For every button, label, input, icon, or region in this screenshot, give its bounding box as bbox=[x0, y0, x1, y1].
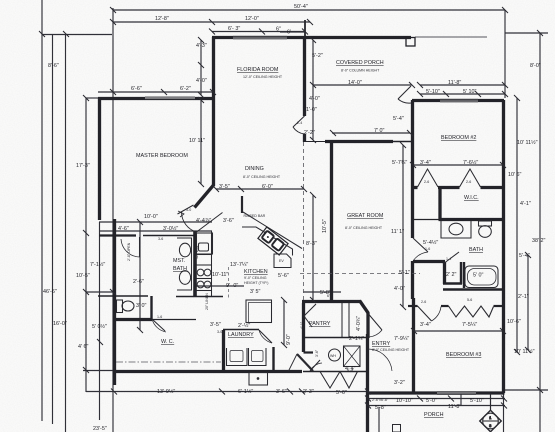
svg-text:6": 6" bbox=[276, 27, 281, 33]
wall toilet nook right bbox=[150, 296, 152, 319]
toilet wc bbox=[117, 300, 123, 313]
wall greatroom bottom bbox=[302, 300, 360, 303]
svg-text:6'-2": 6'-2" bbox=[180, 86, 191, 92]
door entry triangles bbox=[320, 372, 340, 389]
dim vert right 10-11 bbox=[516, 98, 518, 352]
wall master top bbox=[98, 97, 213, 100]
door hall closet diag thick bbox=[297, 354, 313, 371]
wall laundry left bbox=[222, 330, 225, 371]
svg-text:10' 6": 10' 6" bbox=[508, 172, 522, 178]
svg-text:2'-½": 2'-½" bbox=[238, 322, 250, 329]
svg-text:GREAT ROOM: GREAT ROOM bbox=[347, 213, 384, 219]
wall pantry left bbox=[302, 303, 305, 352]
svg-text:2'-6": 2'-6" bbox=[133, 279, 144, 285]
svg-text:11'-8": 11'-8" bbox=[448, 404, 461, 410]
svg-text:2'-3": 2'-3" bbox=[303, 389, 314, 395]
svg-text:1-6: 1-6 bbox=[425, 247, 430, 251]
svg-text:6'-0": 6'-0" bbox=[262, 184, 273, 190]
svg-text:3: 3 bbox=[489, 424, 491, 428]
dim line left 5 bbox=[112, 8, 114, 432]
door florida-porch leaf bbox=[293, 116, 305, 127]
svg-text:10'-10": 10'-10" bbox=[396, 398, 413, 404]
svg-text:6'-1½": 6'-1½" bbox=[238, 388, 253, 395]
shower mst bbox=[197, 233, 213, 254]
door pantry-entry leaf bbox=[369, 314, 383, 330]
door hall-bed3 leaf bbox=[418, 306, 432, 321]
porch bottom dim ext bbox=[378, 407, 380, 432]
svg-text:13'-7¼": 13'-7¼" bbox=[230, 262, 248, 268]
porch right edge line bbox=[504, 10, 506, 98]
svg-text:10'-0": 10'-0" bbox=[144, 214, 158, 220]
dim line 5-8 bbox=[303, 291, 341, 293]
svg-text:EV: EV bbox=[279, 259, 284, 263]
svg-text:3'-5": 3'-5" bbox=[210, 322, 221, 328]
svg-text:3' 5": 3' 5" bbox=[250, 289, 261, 295]
wall hall jog bbox=[304, 351, 314, 353]
dim tick 4-6 left bbox=[83, 370, 114, 372]
kitchen wall stub bbox=[241, 196, 243, 213]
wall wic left bbox=[438, 187, 441, 220]
AC unit bbox=[344, 346, 361, 367]
svg-text:MST.: MST. bbox=[173, 258, 185, 264]
wall pantry diag right bbox=[360, 301, 369, 314]
svg-text:2'-8" OPEN: 2'-8" OPEN bbox=[127, 242, 131, 261]
svg-text:COVERED PORCH: COVERED PORCH bbox=[336, 60, 384, 66]
svg-text:5'-1": 5'-1" bbox=[399, 270, 410, 276]
bath2 toilet bbox=[479, 221, 492, 226]
dim ext master left bbox=[99, 222, 101, 420]
svg-text:HEIGHT (TYP.): HEIGHT (TYP.) bbox=[244, 281, 268, 285]
svg-text:5'-6": 5'-6" bbox=[336, 390, 347, 396]
svg-text:5' 10": 5' 10" bbox=[463, 89, 477, 95]
wall pantry right bbox=[366, 313, 369, 338]
svg-text:5'-6": 5'-6" bbox=[278, 273, 289, 279]
door porch-hall leaf bbox=[398, 86, 411, 99]
dim vert right 5-4 bbox=[527, 255, 529, 350]
dim line left 2 bbox=[52, 34, 54, 424]
dim bottom main bbox=[86, 391, 368, 393]
svg-text:23'-5": 23'-5" bbox=[93, 426, 107, 432]
wall toilet nook bbox=[98, 295, 148, 297]
svg-text:3'-5": 3'-5" bbox=[219, 184, 230, 190]
door master double X left bbox=[178, 205, 194, 214]
svg-text:BEDROOM #2: BEDROOM #2 bbox=[441, 135, 476, 141]
door bed2 left triangle bbox=[418, 169, 439, 187]
svg-text:BATH: BATH bbox=[469, 247, 483, 253]
svg-text:2-4: 2-4 bbox=[297, 121, 302, 125]
wall wc top bbox=[113, 318, 152, 321]
window master top bbox=[145, 97, 195, 100]
dashdot attic line wc bbox=[116, 361, 221, 363]
wall wc top thin bbox=[152, 319, 196, 321]
svg-text:3-0: 3-0 bbox=[217, 330, 222, 334]
dim line 5-10/5-10 bbox=[420, 93, 505, 95]
dashed dim kitchen bbox=[228, 267, 230, 298]
svg-text:BEDROOM #3: BEDROOM #3 bbox=[446, 352, 481, 358]
pantry shelf lines bbox=[341, 302, 343, 337]
svg-text:4'-1": 4'-1" bbox=[300, 321, 304, 329]
svg-text:14'-0": 14'-0" bbox=[348, 80, 362, 86]
svg-text:6'- 3": 6'- 3" bbox=[228, 26, 240, 32]
door pantry leaf bbox=[304, 304, 316, 316]
dim line kitchen 9-0 bbox=[196, 285, 244, 287]
svg-text:2-6: 2-6 bbox=[421, 300, 426, 304]
dim line 11-8 top bbox=[420, 84, 505, 86]
dim line left 4 bbox=[85, 98, 87, 392]
svg-text:3-0: 3-0 bbox=[186, 208, 191, 212]
door entry arc bbox=[368, 349, 392, 371]
dim tick top right bbox=[505, 32, 548, 34]
svg-text:4'-0": 4'-0" bbox=[196, 78, 207, 84]
svg-text:17'-3": 17'-3" bbox=[76, 163, 90, 169]
svg-text:2'-1¾": 2'-1¾" bbox=[349, 336, 364, 342]
wall bed2 bottom right seg bbox=[481, 186, 505, 189]
wall utility bottom bbox=[303, 371, 368, 373]
door mst bath swing bbox=[139, 237, 141, 257]
svg-text:2'-2": 2'-2" bbox=[304, 130, 315, 136]
svg-text:3'-0½": 3'-0½" bbox=[163, 225, 178, 232]
svg-text:5' 0": 5' 0" bbox=[473, 273, 484, 279]
svg-text:1'-0": 1'-0" bbox=[306, 107, 317, 113]
svg-text:KITCHEN: KITCHEN bbox=[244, 269, 268, 275]
dim vert master 10-11 bbox=[200, 100, 202, 184]
wall florida right / porch left bbox=[303, 37, 306, 116]
svg-text:LAUNDRY: LAUNDRY bbox=[228, 332, 254, 338]
svg-text:4'-0¾": 4'-0¾" bbox=[356, 316, 362, 331]
porch wall stub bbox=[304, 20, 306, 37]
svg-text:8'-0": 8'-0" bbox=[530, 63, 541, 69]
svg-text:7'-1½": 7'-1½" bbox=[90, 261, 105, 268]
wall porch left lower bbox=[303, 134, 306, 142]
svg-text:46'-6": 46'-6" bbox=[43, 289, 57, 295]
dryer bbox=[249, 348, 267, 366]
bifold closet bed3 bbox=[449, 306, 494, 317]
mst sink 2 bbox=[179, 271, 190, 285]
svg-text:6': 6' bbox=[287, 30, 291, 36]
svg-text:7'-9¼": 7'-9¼" bbox=[394, 336, 409, 342]
svg-text:5'-10": 5'-10" bbox=[470, 398, 484, 404]
dim line porch bottom tick bbox=[505, 389, 548, 391]
svg-text:RAISED BAR: RAISED BAR bbox=[244, 214, 266, 218]
dim line top 12-8/12-0 bbox=[113, 21, 310, 23]
wall bath bottom bbox=[443, 288, 503, 290]
tub bbox=[465, 266, 498, 288]
wall bed3 bottom bbox=[368, 391, 505, 394]
svg-text:7'-5¼": 7'-5¼" bbox=[462, 322, 477, 328]
wall florida left / master right bbox=[212, 37, 215, 186]
svg-text:7' 0": 7' 0" bbox=[374, 128, 385, 134]
svg-text:4'-0": 4'-0" bbox=[394, 286, 405, 292]
wall linen right bbox=[460, 262, 462, 284]
window bed2 top bbox=[440, 99, 478, 102]
svg-text:5' 0½": 5' 0½" bbox=[92, 323, 107, 330]
svg-text:2'-1": 2'-1" bbox=[518, 294, 529, 300]
svg-text:W. C.: W. C. bbox=[161, 339, 174, 345]
dim vert bath 7-1 bbox=[139, 222, 141, 330]
dim line 4-6/3-0 bbox=[100, 230, 212, 232]
wall greatroom left bbox=[330, 141, 333, 301]
svg-text:8'-0" CEILING HEIGHT: 8'-0" CEILING HEIGHT bbox=[243, 175, 281, 179]
svg-text:8'-0" CEILING HEIGHT: 8'-0" CEILING HEIGHT bbox=[372, 348, 410, 352]
mst sink 1 bbox=[179, 243, 190, 257]
range burners bbox=[197, 269, 204, 276]
WH circle bbox=[329, 349, 341, 361]
svg-text:1: 1 bbox=[489, 416, 491, 420]
dim line greatroom 7-0 bbox=[332, 132, 410, 134]
wall covered porch top bbox=[305, 36, 412, 39]
wall bed2 top bbox=[412, 99, 504, 102]
svg-text:5'-10": 5'-10" bbox=[426, 89, 440, 95]
wall bed3 top mid seg bbox=[441, 305, 449, 307]
wall master diag bbox=[195, 185, 215, 208]
wall greatroom top thin (opening) bbox=[305, 141, 329, 143]
kitchen corner sink dark bbox=[258, 227, 288, 255]
svg-text:8'-0" COLUMN HEIGHT: 8'-0" COLUMN HEIGHT bbox=[341, 69, 380, 73]
dim line wc 2-6 bbox=[86, 291, 113, 293]
door bed2 right triangle bbox=[460, 169, 481, 187]
svg-text:MASTER BEDROOM: MASTER BEDROOM bbox=[136, 153, 188, 159]
svg-text:PANTRY: PANTRY bbox=[309, 321, 331, 327]
dim line top 50-4 bbox=[113, 9, 505, 11]
door laundry leaf+arc bbox=[259, 330, 272, 343]
svg-text:BATH: BATH bbox=[173, 266, 187, 272]
svg-text:13'-9½": 13'-9½" bbox=[157, 388, 175, 395]
wall hall/bed2 vertical bbox=[411, 100, 414, 238]
porch small square bottom bbox=[393, 425, 401, 432]
dim line left outer bbox=[41, 0, 43, 421]
window bed3 bottom bbox=[437, 392, 476, 395]
wall bed3 left bbox=[412, 298, 415, 393]
door linen diag bbox=[443, 252, 459, 264]
svg-text:4' 4": 4' 4" bbox=[345, 366, 356, 372]
svg-text:PORCH: PORCH bbox=[424, 412, 444, 418]
wall linen bottom bbox=[443, 282, 462, 284]
svg-text:5'-4": 5'-4" bbox=[519, 253, 530, 259]
svg-text:W.I.C.: W.I.C. bbox=[464, 195, 479, 201]
door utility bottom leaf bbox=[310, 360, 320, 371]
svg-text:12'-0": 12'-0" bbox=[245, 16, 259, 22]
svg-text:2' 2": 2' 2" bbox=[446, 272, 457, 278]
wall bed3 top right seg bbox=[494, 305, 505, 307]
wall kitchen left bbox=[193, 231, 197, 297]
svg-text:FLORIDA ROOM: FLORIDA ROOM bbox=[237, 67, 279, 73]
dim line dining 3-5/6-0 bbox=[216, 188, 304, 190]
svg-text:16'-0": 16'-0" bbox=[53, 321, 67, 327]
svg-text:1-4: 1-4 bbox=[446, 257, 451, 261]
dim vert right 8-0 bbox=[539, 33, 541, 432]
svg-text:10' 11½": 10' 11½" bbox=[514, 348, 535, 355]
svg-text:4'-6": 4'-6" bbox=[118, 226, 129, 232]
dim line porch 14-0 bbox=[313, 84, 412, 86]
svg-text:WH: WH bbox=[330, 354, 336, 358]
svg-text:3' 0": 3' 0" bbox=[136, 303, 147, 309]
kitchen counter edge bbox=[211, 231, 213, 296]
svg-text:3-6: 3-6 bbox=[158, 237, 163, 241]
porch right edge lower bbox=[503, 393, 505, 432]
diamond marker porch bbox=[480, 393, 501, 432]
wall wc bottom bbox=[113, 370, 302, 373]
wall entry/porch left bbox=[366, 334, 369, 432]
svg-text:5'-4": 5'-4" bbox=[393, 116, 404, 122]
dim vert florida 4-3/4-0 bbox=[200, 40, 202, 95]
window florida top bbox=[233, 36, 287, 39]
svg-text:5-6: 5-6 bbox=[467, 298, 472, 302]
svg-text:10'-6": 10'-6" bbox=[507, 319, 521, 325]
dim vert 11-1 bbox=[402, 145, 404, 307]
nook table bbox=[246, 300, 272, 323]
svg-text:38' 2": 38' 2" bbox=[532, 238, 546, 244]
svg-text:3'-6": 3'-6" bbox=[315, 349, 319, 357]
svg-text:5'-8": 5'-8" bbox=[320, 290, 331, 296]
svg-text:20" LINEN: 20" LINEN bbox=[205, 293, 209, 310]
oven EV box bbox=[274, 254, 291, 268]
wall tub left bbox=[463, 262, 465, 288]
dim line bed3 top bbox=[414, 330, 503, 332]
svg-text:2-6: 2-6 bbox=[466, 180, 471, 184]
washer bbox=[227, 348, 248, 366]
wall bath top right seg bbox=[143, 235, 196, 237]
svg-text:4' 6": 4' 6" bbox=[78, 344, 89, 350]
svg-text:5'-7¾": 5'-7¾" bbox=[392, 160, 407, 166]
dim vert hall 9-0 bbox=[283, 300, 285, 345]
wall bed3 top left seg bbox=[408, 305, 418, 307]
wall bed2 bottom left seg bbox=[412, 186, 418, 189]
wall utility right bbox=[367, 334, 369, 372]
svg-text:3'-2": 3'-2" bbox=[394, 380, 405, 386]
wall hall vertical lower bbox=[411, 261, 414, 299]
door wc swing bbox=[152, 319, 165, 331]
wall greatroom top bbox=[325, 140, 393, 143]
wall linen left bbox=[443, 262, 446, 284]
dim sep bottom bbox=[460, 393, 462, 406]
svg-text:3'-6": 3'-6" bbox=[223, 218, 234, 224]
svg-text:4'-3": 4'-3" bbox=[196, 43, 207, 49]
porch top thin line bbox=[415, 36, 487, 38]
svg-text:10'-11": 10'-11" bbox=[212, 272, 228, 278]
raised bar outer edge bbox=[243, 212, 302, 249]
dim vert gr 10-5 bbox=[312, 195, 314, 300]
wall wc left bbox=[113, 219, 116, 385]
porch column square bbox=[406, 38, 415, 47]
mst vanity counter bbox=[177, 238, 192, 290]
svg-text:42" VAN.: 42" VAN. bbox=[195, 245, 199, 259]
svg-text:4'-0": 4'-0" bbox=[309, 96, 320, 102]
svg-text:5'-0": 5'-0" bbox=[426, 398, 437, 404]
svg-text:10'-5": 10'-5" bbox=[322, 219, 328, 233]
wall bath linen top bbox=[413, 260, 445, 263]
svg-text:9'-0" CEILING: 9'-0" CEILING bbox=[244, 276, 267, 280]
svg-text:12'-0" CEILING HEIGHT: 12'-0" CEILING HEIGHT bbox=[243, 75, 283, 79]
wall kitchen bottom bbox=[176, 296, 223, 298]
svg-text:9'- 0": 9'- 0" bbox=[226, 283, 238, 289]
wall bath hall top bbox=[413, 219, 439, 221]
wall bed2 bottom mid seg bbox=[438, 186, 460, 189]
svg-text:5'-4½": 5'-4½" bbox=[423, 239, 438, 246]
dashed ceiling break greatroom bbox=[300, 273, 420, 275]
svg-text:8'-0" CEILING HEIGHT: 8'-0" CEILING HEIGHT bbox=[345, 226, 383, 230]
freezer below bbox=[249, 373, 268, 386]
wall wic bottom bbox=[439, 218, 505, 221]
wall florida top bbox=[212, 36, 306, 39]
dim line bed2 3-4/7-6 bbox=[413, 164, 503, 166]
svg-text:8'-3": 8'-3" bbox=[306, 241, 317, 247]
svg-text:7'-6½": 7'-6½" bbox=[463, 159, 478, 166]
svg-text:10' 11": 10' 11" bbox=[189, 138, 205, 144]
svg-text:11'-8": 11'-8" bbox=[448, 80, 461, 86]
svg-text:2-6: 2-6 bbox=[424, 180, 429, 184]
svg-text:11' 1": 11' 1" bbox=[391, 229, 404, 235]
svg-text:3'-4": 3'-4" bbox=[420, 322, 431, 328]
svg-text:DINING: DINING bbox=[245, 166, 264, 172]
svg-text:8'-6": 8'-6" bbox=[48, 63, 59, 69]
svg-text:6'-6": 6'-6" bbox=[131, 86, 142, 92]
door porch-hall arc bbox=[398, 99, 411, 103]
svg-text:3'-6": 3'-6" bbox=[276, 389, 287, 395]
door florida-porch arc bbox=[293, 127, 305, 134]
bath2 vanity bbox=[441, 221, 471, 238]
wall bath top bbox=[99, 234, 136, 236]
dim line master bottom 10-0 bbox=[99, 221, 212, 223]
wall laundry top bbox=[223, 329, 259, 331]
svg-text:5'-8": 5'-8" bbox=[375, 405, 386, 411]
dim tick top left bbox=[42, 34, 112, 36]
svg-text:12'-8": 12'-8" bbox=[155, 16, 169, 22]
svg-text:9'-0": 9'-0" bbox=[286, 334, 292, 345]
svg-text:10' 11½": 10' 11½" bbox=[517, 139, 538, 146]
svg-text:5'-2": 5'-2" bbox=[312, 53, 323, 59]
wall pantry bottom bbox=[304, 337, 368, 339]
dim line left 3 bbox=[65, 34, 67, 432]
svg-text:3'-4": 3'-4" bbox=[420, 160, 431, 166]
dim bottom right 1 bbox=[368, 398, 505, 400]
svg-text:1-6: 1-6 bbox=[157, 315, 162, 319]
svg-text:ENTRY: ENTRY bbox=[372, 341, 391, 347]
dashed overhead line greatroom vert bbox=[303, 142, 305, 300]
dim line top 6-3 bbox=[212, 31, 305, 33]
dim vert porch 5-2/4-0 bbox=[312, 40, 314, 140]
svg-text:4'-4⅞": 4'-4⅞" bbox=[196, 218, 211, 224]
svg-text:10'-5": 10'-5" bbox=[76, 273, 90, 279]
wall right exterior bbox=[502, 100, 505, 393]
dim line master top 6-6/6-2 bbox=[98, 91, 213, 93]
svg-text:4'-1": 4'-1" bbox=[520, 201, 531, 207]
door bath hall leaf+arc bbox=[413, 238, 428, 252]
kitchen counter inner edge bbox=[242, 227, 293, 256]
wall master left bbox=[98, 98, 101, 221]
svg-text:50'-4": 50'-4" bbox=[294, 4, 308, 10]
dim bottom right 2 bbox=[368, 405, 505, 407]
svg-text:2'-6"x6'-8": 2'-6"x6'-8" bbox=[372, 398, 389, 402]
wall laundry right bbox=[272, 347, 274, 371]
